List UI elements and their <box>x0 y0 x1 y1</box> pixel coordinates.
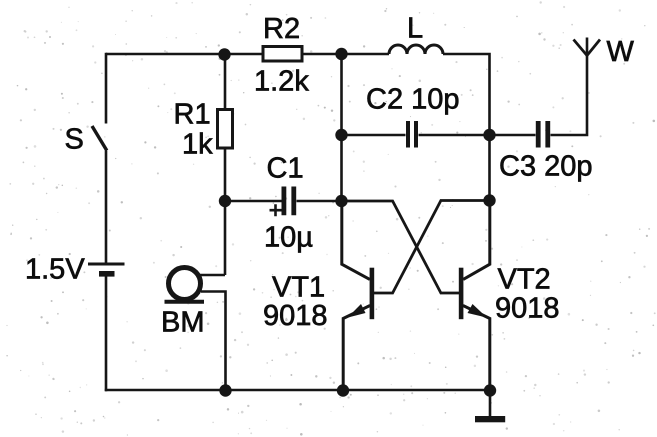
transistor VT2 collector wire <box>463 201 490 280</box>
transistor VT1 base bar <box>370 268 375 320</box>
svg-text:L: L <box>407 13 423 45</box>
capacitor C3 plates <box>538 121 548 148</box>
svg-text:C2 10p: C2 10p <box>366 84 460 116</box>
svg-text:VT1: VT1 <box>272 272 325 304</box>
wire left vertical lower <box>105 276 108 391</box>
wire C3 left <box>490 134 536 137</box>
wire left vertical middle <box>105 151 108 263</box>
transistor VT1 emitter arrow <box>348 304 366 318</box>
svg-text:C1: C1 <box>267 153 304 185</box>
battery G 1.5V long plate <box>88 263 125 266</box>
resistor R1 <box>218 110 233 149</box>
svg-text:VT2: VT2 <box>498 264 551 296</box>
microphone BM <box>165 268 205 302</box>
wire R1 top <box>224 54 227 108</box>
wire C3 right to antenna <box>551 38 588 136</box>
wire C2 right <box>419 134 490 137</box>
transistor VT1 collector wire <box>342 201 370 279</box>
switch S <box>92 126 107 151</box>
wire mic top lead <box>199 274 225 277</box>
capacitor C1 plates <box>284 187 294 216</box>
wire top rail left <box>106 53 262 56</box>
svg-text:R2: R2 <box>263 13 300 45</box>
capacitor C2 plates <box>408 121 416 148</box>
junction dot R1 / C1 / mic <box>219 195 231 207</box>
svg-text:9018: 9018 <box>495 293 560 325</box>
transistor VT2 emitter arrow <box>468 304 488 318</box>
wire C1 right <box>297 200 342 203</box>
resistor R2 <box>263 47 302 62</box>
node A vertical wire <box>340 54 343 201</box>
antenna W fork <box>574 40 601 56</box>
transistor VT2 emitter wire <box>463 306 490 391</box>
svg-text:S: S <box>65 124 84 156</box>
junction dot mic on bottom rail <box>219 384 231 396</box>
junction dot node B / C2 right <box>483 129 495 141</box>
svg-text:W: W <box>607 36 635 68</box>
svg-text:10µ: 10µ <box>264 222 313 254</box>
wire left vertical upper <box>105 53 108 124</box>
svg-text:C3 20p: C3 20p <box>499 151 593 183</box>
junction dot node A / C2 left <box>335 129 347 141</box>
transistor VT1 emitter wire <box>343 306 370 391</box>
svg-text:9018: 9018 <box>263 300 328 332</box>
svg-text:BM: BM <box>161 307 205 339</box>
transistor VT2 base bar <box>459 268 464 320</box>
wire R1 node to mic <box>224 201 227 275</box>
wire R1 bottom <box>224 150 227 202</box>
wire L to node B corner <box>443 54 490 201</box>
wire C2 left <box>342 134 406 137</box>
junction dot VT1 emitter on bottom rail <box>337 384 349 396</box>
C1 polarity plus sign <box>270 204 282 216</box>
wire C1 left <box>225 200 282 203</box>
wire cross-couple node A to VT2 base <box>342 201 460 293</box>
junction dot node B lower <box>483 194 495 206</box>
wire R2 to L <box>304 53 390 56</box>
ground symbol bar <box>475 416 505 422</box>
wire bottom rail <box>105 389 490 392</box>
ground stub wire <box>489 390 492 417</box>
svg-text:1.5V: 1.5V <box>25 254 85 286</box>
wire cross-couple node B to VT1 base <box>374 201 490 294</box>
battery G 1.5V short plate <box>99 271 115 277</box>
junction dot top rail R1 <box>218 48 230 60</box>
svg-text:R1: R1 <box>174 99 211 131</box>
junction dot VT2 emitter / ground <box>484 384 496 396</box>
junction dot node A / C1 <box>335 195 347 207</box>
svg-text:1.2k: 1.2k <box>254 66 309 98</box>
svg-text:1k: 1k <box>182 129 213 161</box>
junction dot top rail node A <box>335 48 347 60</box>
inductor L coil <box>389 45 443 54</box>
wire mic bottom lead to bottom rail <box>201 292 226 391</box>
